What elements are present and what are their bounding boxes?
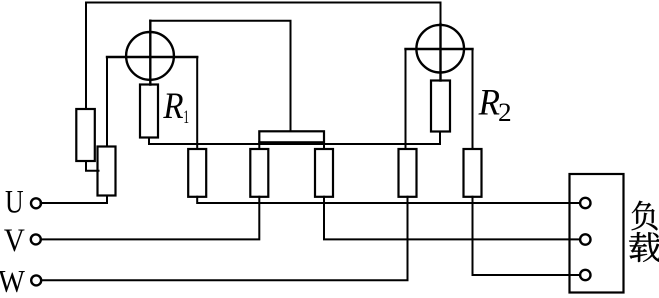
load terminal 2 [580,234,590,244]
wire coil K2 bottom down to V terminal wire [41,197,260,240]
wattmeter W1 [107,21,197,85]
wire W2 left to coil K4 top [405,49,407,149]
coil K4 [399,149,417,197]
svg-text:1: 1 [183,107,189,128]
resistor R2 [431,81,450,132]
load terminal 3 [580,270,590,280]
load box [570,174,624,293]
coil K3 [315,149,333,197]
potentiometer RP [259,131,324,142]
wire W1 top to potentiometer RP centre tap [150,21,290,131]
wire U terminal to coil L2 bottom [41,196,108,204]
wire top run: coil L1 top, up, across, down to wattmeter W2 [86,3,441,110]
svg-text:R: R [478,82,500,123]
svg-text:V: V [4,221,25,258]
coil K2 [250,149,268,197]
svg-text:R: R [162,85,183,126]
coil K1 [188,149,206,197]
wire W1 right to coil K1 top [196,57,198,149]
svg-text:2: 2 [498,98,512,127]
terminal W [31,275,41,285]
svg-text:W: W [0,263,25,298]
terminal V [31,234,41,244]
wire link L1 bottom to coil L2 left side [86,161,99,171]
wire W2 right to coil K5 top [472,49,474,149]
coil K5 [464,149,482,197]
coil L2 [98,147,116,196]
wire bus: coil K1 bottom to load terminal 1 [197,197,580,203]
wire mid bus: R1 bottom across to R2 bottom [149,132,440,145]
wattmeter W2 [406,24,473,81]
svg-text:U: U [5,185,24,221]
wire coil K3 bottom down and right to load terminal 2 [324,197,580,240]
label zai (load) [629,232,659,262]
wire W1 left to coil L2 top [106,57,108,147]
wire RP left end to coil K2 top [258,142,260,149]
label fu (load) [632,201,658,230]
resistor R1 [140,85,158,138]
wire coil K5 bottom down and right to load terminal 3 [473,197,581,275]
terminal U [31,198,41,208]
wire coil K4 bottom down to W terminal wire [41,197,408,280]
load terminal 1 [580,198,590,208]
coil L1 [76,109,95,161]
wire RP right end to coil K3 top [323,142,325,149]
